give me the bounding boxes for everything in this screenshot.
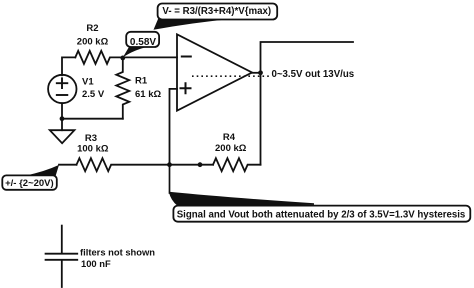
svg-text:R1: R1 [135,76,148,87]
resistor R2 [75,51,123,64]
resistor R4 [213,158,261,171]
svg-text:100 kΩ: 100 kΩ [77,143,109,154]
capacitor C1 [46,226,78,287]
svg-text:2.5 V: 2.5 V [82,89,105,100]
resistor R1 [116,57,129,118]
resistor R3 [77,158,170,171]
svg-text:R3: R3 [85,133,97,144]
svg-text:200 kΩ: 200 kΩ [77,36,109,47]
svg-text:+/- {2~20V): +/- {2~20V) [5,178,54,189]
wire R1 bottom to ground node [62,118,123,120]
svg-text:filters not shown: filters not shown [80,246,155,257]
callout 0.58V [123,32,160,58]
wire input to R3 [59,164,77,166]
wire op-amp output [252,72,261,74]
svg-text:V1: V1 [82,77,94,88]
node V- junction [120,56,125,61]
wire V1 top to R2 left [62,57,75,75]
node signal junction [167,162,172,167]
voltage source V1 [48,75,76,103]
node ground junction [60,116,65,121]
op-amp U1 [177,34,252,110]
callout hysteresis note [169,165,471,222]
wire output up and right [261,42,354,73]
svg-text:Signal and Vout both attenuate: Signal and Vout both attenuated by 2/3 o… [177,209,466,220]
callout V- formula [154,4,278,30]
svg-text:61 kΩ: 61 kΩ [135,89,161,100]
wire V1 bottom to ground [61,103,63,130]
callout input range [2,165,59,190]
dotted threshold line [192,75,270,77]
wire node to op-amp inverting input [123,56,177,58]
svg-text:R2: R2 [86,23,98,34]
node R4 left junction [198,162,203,167]
svg-text:R4: R4 [223,132,236,143]
wire junction to R4 [170,164,214,166]
ground [50,130,75,143]
svg-text:100 nF: 100 nF [81,258,111,269]
svg-text:0~3.5V out 13V/us: 0~3.5V out 13V/us [272,69,355,80]
wire output down to R4 [260,73,262,165]
svg-text:0.58V: 0.58V [130,37,156,48]
svg-text:200 kΩ: 200 kΩ [215,143,247,154]
wire op-amp noninverting input [170,89,178,165]
node output junction [258,70,263,75]
svg-text:V- = R3/(R3+R4)*V{max): V- = R3/(R3+R4)*V{max) [162,6,271,17]
